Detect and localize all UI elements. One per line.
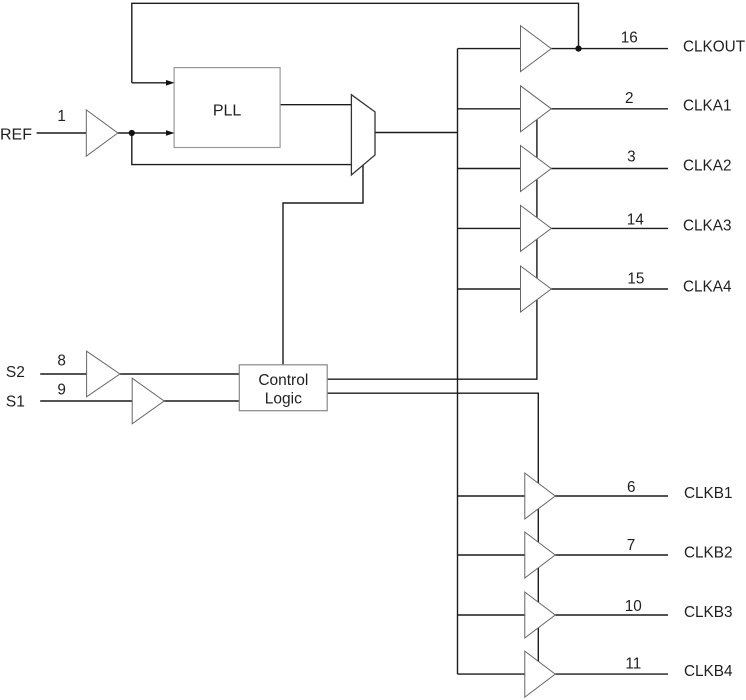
svg-text:PLL: PLL xyxy=(213,102,242,119)
svg-text:S2: S2 xyxy=(6,364,25,381)
svg-text:CLKA3: CLKA3 xyxy=(683,218,731,235)
svg-text:7: 7 xyxy=(627,537,636,554)
svg-text:8: 8 xyxy=(57,352,66,369)
svg-text:REF: REF xyxy=(0,127,32,144)
svg-text:14: 14 xyxy=(627,212,645,229)
svg-text:6: 6 xyxy=(627,479,636,496)
svg-text:2: 2 xyxy=(625,90,634,107)
svg-text:CLKB4: CLKB4 xyxy=(684,663,733,680)
svg-text:CLKA2: CLKA2 xyxy=(683,158,731,175)
svg-text:10: 10 xyxy=(625,598,642,615)
svg-text:16: 16 xyxy=(621,29,638,46)
svg-text:CLKOUT: CLKOUT xyxy=(683,39,745,56)
svg-text:CLKA4: CLKA4 xyxy=(683,278,732,295)
svg-text:1: 1 xyxy=(57,108,66,125)
svg-text:CLKB1: CLKB1 xyxy=(684,485,732,502)
svg-text:15: 15 xyxy=(627,270,644,287)
svg-text:9: 9 xyxy=(57,381,66,398)
svg-text:CLKB2: CLKB2 xyxy=(684,545,732,562)
svg-text:11: 11 xyxy=(625,655,641,672)
svg-text:Control: Control xyxy=(258,372,308,389)
svg-text:CLKA1: CLKA1 xyxy=(683,97,731,114)
svg-text:S1: S1 xyxy=(6,394,25,411)
svg-text:Logic: Logic xyxy=(265,391,302,408)
svg-text:CLKB3: CLKB3 xyxy=(684,604,732,621)
svg-text:3: 3 xyxy=(627,148,636,165)
